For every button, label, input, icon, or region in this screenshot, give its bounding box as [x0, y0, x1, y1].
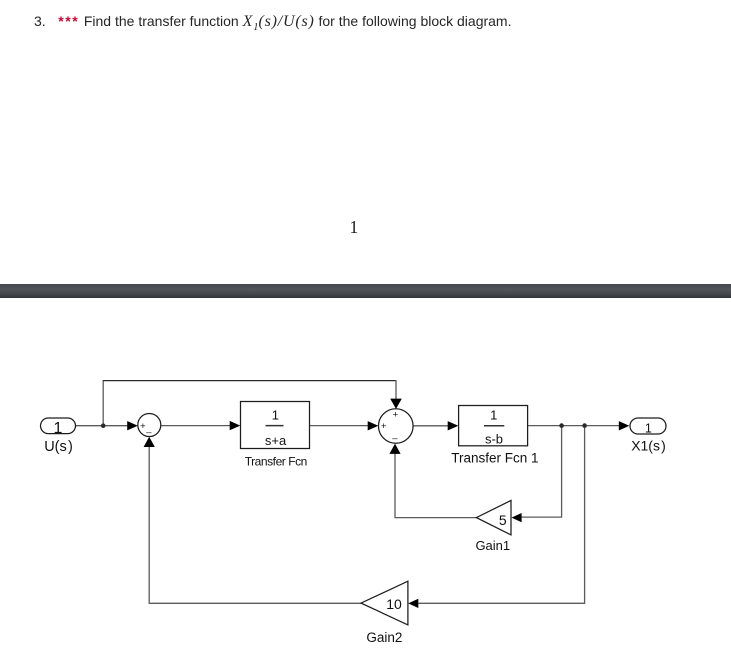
svg-text:1: 1	[490, 408, 497, 423]
svg-text:s-b: s-b	[485, 432, 503, 447]
svg-text:–: –	[392, 433, 398, 444]
svg-text:Transfer Fcn 1: Transfer Fcn 1	[451, 451, 538, 466]
svg-text:U(s ): U(s )	[44, 439, 73, 455]
svg-text:Gain2: Gain2	[366, 630, 402, 645]
svg-text:–: –	[146, 427, 152, 438]
svg-text:5: 5	[499, 512, 507, 528]
svg-text:1: 1	[54, 420, 63, 437]
svg-text:Transfer Fcn: Transfer Fcn	[245, 455, 307, 469]
svg-text:X1(s ): X1(s )	[631, 437, 666, 453]
svg-text:1: 1	[272, 407, 279, 422]
svg-text:1: 1	[645, 421, 652, 435]
svg-text:Gain1: Gain1	[475, 538, 510, 553]
svg-text:+: +	[140, 421, 146, 432]
svg-text:+: +	[393, 410, 399, 421]
svg-text:+: +	[381, 421, 387, 432]
svg-text:10: 10	[386, 596, 402, 612]
svg-text:s+a: s+a	[265, 433, 287, 448]
